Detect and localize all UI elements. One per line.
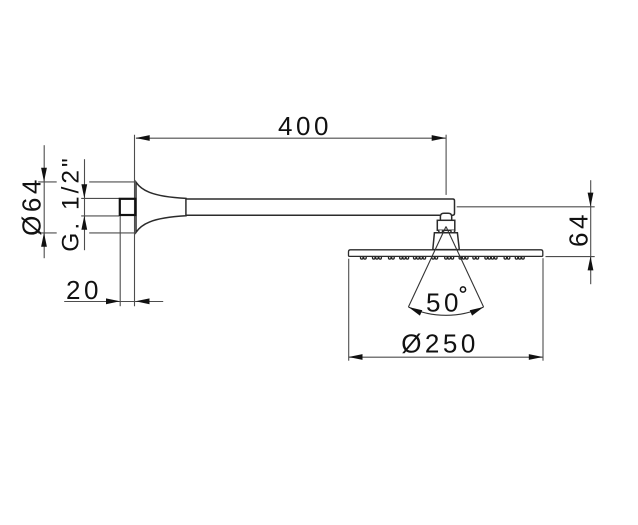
svg-text:64: 64 bbox=[564, 211, 594, 247]
svg-text:Ø250: Ø250 bbox=[401, 329, 479, 359]
svg-text:20: 20 bbox=[66, 275, 102, 305]
svg-text:400: 400 bbox=[278, 111, 332, 141]
svg-text:Ø64: Ø64 bbox=[17, 176, 47, 236]
svg-text:50: 50 bbox=[426, 288, 462, 318]
svg-text:G. 1/2": G. 1/2" bbox=[58, 155, 85, 251]
